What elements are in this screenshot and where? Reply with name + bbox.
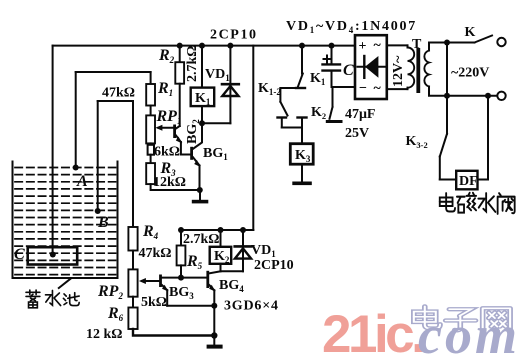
- ground (K3): [292, 182, 312, 186]
- svg-text:−: −: [359, 81, 367, 96]
- svg-text:2.7kΩ: 2.7kΩ: [185, 46, 200, 83]
- resistor R2: [179, 46, 181, 63]
- svg-text:47kΩ: 47kΩ: [139, 246, 172, 261]
- svg-text:A: A: [76, 173, 88, 190]
- relay coil K1: [201, 46, 203, 88]
- node DF branch junction: [485, 93, 491, 99]
- water dashed lines: [15, 168, 116, 275]
- transistor BG3: [159, 275, 162, 288]
- svg-text:~220V: ~220V: [451, 66, 489, 81]
- wire top rail: [53, 45, 355, 47]
- node emitter/R3: [197, 187, 203, 193]
- bridge internal diode symbol: [358, 66, 385, 68]
- ground (upper): [199, 190, 201, 200]
- wire R4 to RP2 lead: [132, 251, 134, 270]
- svg-text:B: B: [97, 214, 109, 231]
- node bottom rail junction: [211, 332, 217, 338]
- node secondary top junction: [444, 40, 450, 46]
- switch contact K2: [332, 87, 334, 107]
- switch contact K1 (NO): [301, 46, 303, 74]
- wire right rail to lower circuit: [252, 46, 254, 230]
- bridge rectifier VD1~VD4: [355, 35, 387, 99]
- transformer core: [416, 48, 420, 93]
- svg-text:DF: DF: [459, 174, 478, 189]
- wire to K1-2 contact: [280, 87, 302, 89]
- wire lower circuit top rail: [181, 229, 253, 231]
- svg-text:~: ~: [374, 81, 382, 96]
- wire loop A horizontal: [76, 71, 151, 73]
- svg-text:21ic.: 21ic.: [322, 305, 423, 358]
- potentiometer RP2: [128, 269, 137, 296]
- label 蓄水池 pointer line: [59, 279, 71, 288]
- svg-text:~: ~: [374, 38, 382, 53]
- wire bottom rail: [133, 329, 214, 336]
- transistor BG4: [206, 271, 209, 288]
- svg-text:2CP10: 2CP10: [210, 28, 258, 43]
- node VD2 top junction: [240, 227, 246, 233]
- resistor 6k: [150, 143, 152, 144]
- watermark 电子网 (drawn glyphs): [414, 306, 510, 331]
- resistor R6: [132, 297, 134, 308]
- ~220V terminals: [447, 95, 497, 97]
- svg-text:T: T: [412, 37, 422, 52]
- svg-text:3GD6×4: 3GD6×4: [224, 299, 279, 314]
- wire DF right lead: [478, 179, 489, 181]
- wire R4 feed vertical: [132, 101, 134, 227]
- transistor BG2: [173, 125, 176, 139]
- node R5 top junction: [178, 227, 184, 233]
- wire loop B horizontal: [98, 100, 133, 102]
- node A dot: [73, 165, 79, 171]
- node secondary bottom junction: [444, 93, 450, 99]
- node BG3 emitter junction: [211, 303, 217, 309]
- svg-text:12kΩ: 12kΩ: [153, 175, 186, 190]
- electrode C plate: [28, 247, 77, 264]
- wire junction to VD1 anode: [202, 122, 230, 124]
- node B dot: [95, 208, 101, 214]
- node K2 top junction: [218, 227, 224, 233]
- wire R3 bottom to emitter node: [151, 184, 200, 190]
- wire electrode C vertical: [52, 46, 54, 255]
- node VD1 top junction: [227, 43, 233, 49]
- right rail: [446, 43, 448, 134]
- wire K3 bottom lead: [301, 164, 303, 181]
- node K1 bottom junction: [199, 120, 205, 126]
- label 蓄水池 (drawn glyphs): [26, 290, 79, 308]
- solenoid valve DF: [456, 171, 477, 190]
- terminal circle (mains top): [497, 38, 505, 46]
- node K1 contact top junction: [299, 43, 305, 49]
- terminal circle (mains bottom): [497, 92, 505, 100]
- wire electrode A vertical: [75, 72, 77, 168]
- svg-text:2.7kΩ: 2.7kΩ: [183, 232, 220, 247]
- wire secondary bottom lead: [429, 87, 447, 96]
- transformer secondary: [424, 51, 429, 87]
- node R5 bottom junction: [178, 275, 184, 281]
- svg-text:K: K: [465, 25, 476, 40]
- svg-text:+: +: [359, 39, 367, 54]
- node K1 top junction: [199, 43, 205, 49]
- transformer T primary winding: [387, 44, 408, 46]
- diode VD2 (lower, 2CP10): [242, 230, 244, 271]
- resistor R4 chain: [128, 227, 137, 251]
- wire electrode B vertical: [97, 101, 99, 211]
- water tank 蓄水池: [13, 162, 118, 279]
- svg-text:C: C: [14, 246, 25, 263]
- switch contact K1-2: [280, 102, 287, 116]
- switch contact K3-2: [440, 134, 447, 157]
- svg-text:com: com: [418, 305, 520, 358]
- svg-text:47μF: 47μF: [345, 107, 376, 122]
- svg-text:5kΩ: 5kΩ: [141, 295, 167, 310]
- wire R1 top lead: [150, 72, 152, 84]
- resistor R3: [150, 155, 152, 163]
- svg-text:2CP10: 2CP10: [254, 258, 294, 273]
- resistor R1: [146, 84, 155, 106]
- potentiometer RP1: [150, 106, 152, 116]
- relay coil K3: [301, 128, 303, 144]
- wire K2 bottom lead: [220, 264, 222, 272]
- capacitor C 47uF (electrolytic, + mark): [331, 46, 333, 64]
- node C cap top junction: [329, 43, 335, 49]
- svg-text:25V: 25V: [345, 126, 369, 141]
- svg-text:12V~: 12V~: [391, 55, 406, 87]
- switch K: [447, 42, 475, 44]
- svg-text:47kΩ: 47kΩ: [102, 86, 135, 101]
- svg-text:12 kΩ: 12 kΩ: [86, 327, 123, 342]
- diode VD1 (upper, 2CP10): [229, 46, 231, 124]
- resistor R5: [180, 230, 182, 246]
- wire K1 bottom lead: [201, 106, 203, 123]
- label 电磁水阀 (drawn glyphs): [440, 193, 515, 214]
- node C dot: [50, 252, 56, 258]
- relay coil K2: [220, 230, 222, 247]
- svg-text:C: C: [343, 62, 354, 79]
- transistor BG1: [181, 154, 190, 156]
- ground (lower): [213, 336, 215, 345]
- wire secondary top lead: [429, 43, 447, 51]
- node R2 top junction: [177, 43, 183, 49]
- svg-text:6kΩ: 6kΩ: [154, 145, 180, 160]
